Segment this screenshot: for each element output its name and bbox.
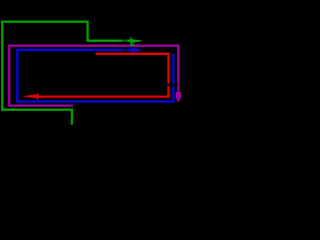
wire blue loop (right edge, bottom edge, left edge, top edge) xyxy=(17,50,173,102)
wire dim patch on green mid segment before arrowhead xyxy=(122,40,127,42)
arrowhead blue right-arrow xyxy=(131,47,144,54)
wire dim patch on blue top segment before arrowhead xyxy=(122,49,127,51)
arrowhead purple down-arrow xyxy=(176,92,181,103)
arrowhead red left-arrow xyxy=(22,93,39,100)
wire purple loop (top edge, right edge, left edge, bottom stub) xyxy=(9,46,178,106)
wire crossing dark band over purple right vertical xyxy=(177,84,181,87)
wire red loop (top edge, right edge, bottom edge) xyxy=(37,54,169,97)
arrowhead green right-arrow xyxy=(130,38,143,46)
wire green loop (bottom tail, left edge, top edge, step, mid segment) xyxy=(2,22,130,125)
wire crossing dark band over red and blue right verticals xyxy=(167,83,176,86)
